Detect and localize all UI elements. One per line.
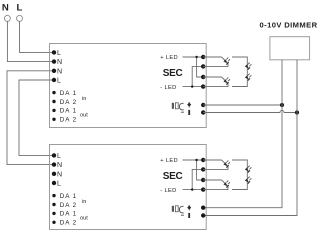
svg-text:DA 1: DA 1 xyxy=(60,193,77,200)
svg-text:DA 2: DA 2 xyxy=(60,99,77,106)
svg-text:DA 2: DA 2 xyxy=(60,117,77,124)
U2 internal junction xyxy=(195,159,197,161)
U2 LED out terminal 3 xyxy=(201,178,205,182)
U1 internal wire -LED xyxy=(183,66,204,86)
wire L jumper driver1 to driver2 xyxy=(19,80,54,155)
svg-text:+ LED: + LED xyxy=(160,158,178,164)
U2 internal junction 2 xyxy=(191,188,193,190)
U1 LED out terminal 1 xyxy=(201,55,205,59)
U1 terminal L1 xyxy=(52,50,56,54)
svg-text:DA 2: DA 2 xyxy=(60,220,77,227)
svg-text:N: N xyxy=(57,162,62,169)
LED D3 xyxy=(245,62,252,69)
LED D5 xyxy=(222,160,231,168)
wire L input xyxy=(20,21,55,52)
U2 dim terminal - xyxy=(201,213,205,217)
junction dot dim- xyxy=(295,110,299,114)
U2 terminal DA1 in xyxy=(52,194,55,197)
U2 LED out terminal 4 xyxy=(201,187,205,191)
svg-text:in: in xyxy=(82,96,86,102)
U1 terminal N1 xyxy=(52,59,56,63)
U1 dim+ wire xyxy=(203,104,282,106)
dimmer wire 1 xyxy=(203,60,282,208)
svg-text:L: L xyxy=(57,78,61,85)
U2 LED out terminal 2 xyxy=(201,167,205,171)
svg-text:L: L xyxy=(57,50,61,57)
svg-text:SEC: SEC xyxy=(163,68,183,79)
svg-text:N: N xyxy=(57,171,62,178)
svg-text:L: L xyxy=(16,3,22,14)
LED D7 xyxy=(245,165,252,172)
driver U1 box xyxy=(50,44,207,128)
U1 dim plus mark xyxy=(188,102,190,108)
LED D6 xyxy=(222,180,231,188)
U2 terminal L2 xyxy=(52,181,56,185)
svg-text:N: N xyxy=(57,68,62,75)
U2 terminal L1 xyxy=(52,153,56,157)
U1 LED string 1 wire xyxy=(203,57,228,66)
U1 LED out terminal 4 xyxy=(201,84,205,88)
junction dot dim+ xyxy=(280,103,284,107)
U1 dim- wire with hop xyxy=(203,110,297,112)
U2 terminal DA2 in xyxy=(52,203,55,206)
U2 dim terminal + xyxy=(201,206,205,210)
U1 terminal DA2 out xyxy=(52,118,55,121)
U1 internal junction 2 xyxy=(191,85,193,87)
U2 internal wire -LED xyxy=(183,169,204,189)
U2 LED string 1 wire xyxy=(203,160,228,169)
dimmer wire 2 xyxy=(203,60,297,216)
dimmer box xyxy=(270,37,310,60)
svg-text:out: out xyxy=(80,215,88,221)
svg-text:- LED: - LED xyxy=(160,85,176,91)
U1 parallel LED branch wire xyxy=(232,57,247,87)
wire N input xyxy=(7,21,54,61)
LED D4 xyxy=(245,73,252,80)
LED D2 xyxy=(222,77,231,85)
svg-text:in: in xyxy=(82,199,86,205)
svg-text:L: L xyxy=(57,153,61,160)
U2 terminal N2 xyxy=(52,172,56,176)
U1 LED out terminal 2 xyxy=(201,64,205,68)
svg-text:out: out xyxy=(80,112,88,118)
U1 internal junction xyxy=(195,56,197,58)
LED D1 xyxy=(222,57,231,65)
svg-text:- LED: - LED xyxy=(160,188,176,194)
U2 dim symbol bars xyxy=(172,206,174,212)
U1 terminal DA2 in xyxy=(52,100,55,103)
U1 terminal N2 xyxy=(52,69,56,73)
svg-text:DA 1: DA 1 xyxy=(60,90,77,97)
U1 dim terminal + xyxy=(201,103,205,107)
U2 LED out terminal 1 xyxy=(201,158,205,162)
U1 dim minus mark xyxy=(188,110,190,115)
svg-text:N: N xyxy=(2,3,9,14)
U1 dim terminal - xyxy=(201,110,205,114)
U1 LED out terminal 3 xyxy=(201,75,205,79)
U1 terminal DA1 in xyxy=(52,91,55,94)
svg-text:+ LED: + LED xyxy=(160,55,178,61)
LED D8 xyxy=(245,176,252,183)
svg-text:N: N xyxy=(57,59,62,66)
U2 internal wire +LED xyxy=(183,160,204,180)
U1 dim symbol bars xyxy=(172,103,174,109)
driver U2 box xyxy=(50,145,207,230)
svg-text:DA 2: DA 2 xyxy=(60,202,77,209)
U2 terminal DA2 out xyxy=(52,221,55,224)
svg-text:DA 1: DA 1 xyxy=(60,108,77,115)
U2 LED string 2 wire xyxy=(203,180,228,190)
terminal circle N xyxy=(4,15,10,21)
U1 terminal L2 xyxy=(52,78,56,82)
U1 dim symbol C xyxy=(179,103,184,112)
terminal circle L xyxy=(17,15,23,21)
U1 LED string 2 wire xyxy=(203,77,228,87)
U1 terminal DA1 out xyxy=(52,109,55,112)
U2 terminal DA1 out xyxy=(52,212,55,215)
U2 parallel LED branch wire xyxy=(232,160,247,190)
svg-text:0-10V DIMMER: 0-10V DIMMER xyxy=(260,21,318,30)
U1 internal wire +LED xyxy=(183,57,204,77)
U2 dim minus mark xyxy=(188,213,190,218)
svg-text:SEC: SEC xyxy=(163,171,183,182)
wire N jumper driver1 to driver2 xyxy=(7,71,54,165)
U2 dim symbol C xyxy=(179,206,184,215)
svg-text:DA 1: DA 1 xyxy=(60,211,77,218)
U2 terminal N1 xyxy=(52,162,56,166)
svg-text:L: L xyxy=(57,181,61,188)
U2 dim plus mark xyxy=(188,205,190,211)
